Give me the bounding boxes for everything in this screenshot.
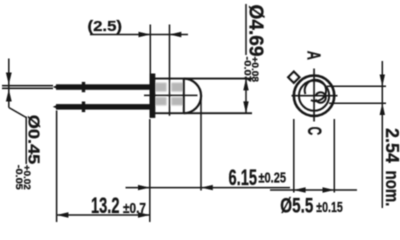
- Ø5.5 arrows: [294, 187, 335, 192]
- dimension line 13.2: [57, 214, 150, 216]
- top view vertical centerline: [313, 69, 315, 122]
- svg-text:A: A: [304, 51, 324, 60]
- internal lead posts (faint scan ghosts): [155, 83, 183, 106]
- lead standoff ticks: [82, 82, 85, 112]
- Ø0.45 text underline: [25, 117, 27, 165]
- body horizontal centerline: [144, 94, 198, 96]
- Ø5.5 right extension line: [333, 119, 335, 193]
- (2.5) left extension line: [149, 25, 151, 74]
- 13.2 arrows: [57, 212, 150, 217]
- svg-text:±0.7: ±0.7: [123, 200, 146, 217]
- svg-text:Ø5.5: Ø5.5: [280, 195, 313, 218]
- Ø0.45 leader kink: [9, 108, 26, 118]
- dimension (2.5) line: [90, 34, 188, 36]
- svg-text:6.15: 6.15: [229, 165, 258, 190]
- LED body bottom edge (extended to dim): [155, 112, 252, 114]
- top view horizontal centerline: [292, 95, 338, 97]
- top view ring circle: [299, 81, 329, 111]
- Ø5.5 left extension line: [293, 119, 295, 193]
- svg-text:nom.: nom.: [382, 171, 400, 207]
- LED body top edge (extended to dim): [155, 78, 252, 80]
- polarity tab: [288, 72, 299, 83]
- svg-text:±0.15: ±0.15: [316, 199, 343, 216]
- dome arc: [184, 79, 201, 114]
- top view outer circle: [294, 76, 334, 116]
- 6.15 arrows (outside): [138, 185, 213, 190]
- 13.2/6.15 shared extension line at flange face: [149, 119, 151, 222]
- wire upper lead diameter extension lines: [2, 86, 53, 89]
- svg-text:-0.07: -0.07: [242, 57, 253, 83]
- svg-text:Ø4.69: Ø4.69: [245, 5, 267, 57]
- dimension line 6.15: [126, 187, 291, 189]
- svg-text:C: C: [303, 127, 324, 136]
- svg-text:(2.5): (2.5): [88, 19, 123, 35]
- svg-text:-0.05: -0.05: [13, 165, 24, 191]
- wire lower lead: [53, 104, 151, 110]
- (2.5) arrows: [139, 32, 182, 37]
- dimension line 2.54: [381, 61, 383, 208]
- svg-text:2.54: 2.54: [382, 128, 400, 163]
- wire upper lead: [53, 84, 151, 90]
- body vertical chip line / (2.5) right extension: [169, 25, 171, 116]
- 2.54 upper extension line: [327, 85, 386, 87]
- dimension line Ø0.45: [8, 59, 10, 108]
- dimension line Ø5.5: [270, 189, 357, 191]
- 2.54 arrows (outside): [380, 75, 385, 116]
- 13.2 left extension line: [56, 111, 58, 223]
- svg-text:Ø0.45: Ø0.45: [25, 115, 42, 165]
- Ø4.69 arrows: [243, 79, 248, 114]
- top view small post circle: [316, 92, 326, 102]
- LED flange: [150, 74, 155, 118]
- dome base line: [183, 79, 185, 114]
- dimension line Ø4.69: [245, 4, 247, 55]
- 2.54 lower extension line: [329, 102, 386, 104]
- svg-text:13.2: 13.2: [91, 193, 120, 218]
- top view inner cup circle: [305, 80, 326, 101]
- svg-text:±0.25: ±0.25: [259, 170, 287, 186]
- Ø0.45 arrows: [6, 73, 12, 102]
- 6.15 right extension line (dome tip): [200, 99, 202, 191]
